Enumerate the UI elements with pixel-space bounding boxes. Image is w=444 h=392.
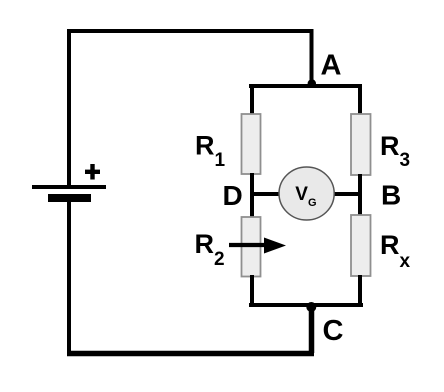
wire bridge top horizontal (A rail) xyxy=(249,84,362,88)
wire stub A to R3 xyxy=(358,84,362,115)
node A junction dot xyxy=(308,79,316,87)
galvanometer VG body xyxy=(279,167,334,220)
resistor R2 body xyxy=(242,217,261,277)
wire top horizontal (battery + to node A) xyxy=(67,29,314,33)
battery B1 positive plate xyxy=(32,185,106,189)
wire Rx to bottom rail xyxy=(358,275,362,307)
battery plus sign xyxy=(85,164,100,180)
wire left vertical (top, to battery +) xyxy=(67,29,71,186)
wire node C to bottom wire xyxy=(309,305,315,353)
svg-text:C: C xyxy=(323,315,344,347)
svg-text:B: B xyxy=(381,180,401,211)
wire R3 to node B to Rx xyxy=(358,174,362,216)
wire bridge bottom horizontal (C rail) xyxy=(249,303,363,307)
wire node D to galvanometer xyxy=(250,192,280,196)
wire R1 to node D to R2 xyxy=(250,173,254,218)
wiper arrow on R2 xyxy=(229,238,286,254)
resistor R3 body xyxy=(351,114,371,175)
resistor R1 body xyxy=(242,114,261,174)
wire galvanometer to node B xyxy=(333,192,362,196)
wire R2 to bottom rail xyxy=(250,275,254,307)
wire left vertical (bottom, from battery -) xyxy=(67,202,71,356)
wire stub A to R1 xyxy=(250,84,254,115)
node C junction dot xyxy=(306,302,316,312)
svg-text:D: D xyxy=(223,180,243,211)
wire right vertical (down to node A) xyxy=(310,29,314,85)
wire bottom horizontal xyxy=(67,351,314,357)
battery B1 negative plate xyxy=(48,194,91,202)
resistor Rx body xyxy=(351,215,371,276)
svg-text:A: A xyxy=(321,50,342,82)
